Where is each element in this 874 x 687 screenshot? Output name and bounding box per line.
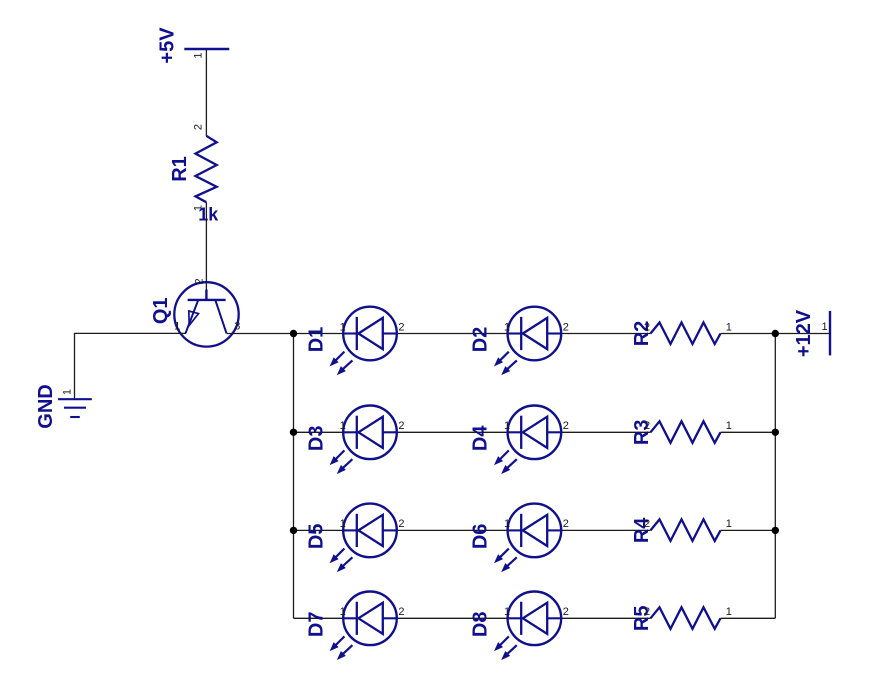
svg-text:2: 2: [398, 420, 404, 432]
svg-text:D4: D4: [470, 425, 492, 451]
LED D2: [508, 307, 562, 361]
svg-text:D3: D3: [306, 426, 328, 452]
power symbol +12V bar: [829, 311, 831, 356]
svg-text:1: 1: [726, 321, 732, 333]
right rail wire: [774, 334, 776, 619]
resistor R4: [651, 519, 721, 541]
svg-text:+5V: +5V: [157, 27, 179, 64]
wire row 2 segment d: [721, 431, 776, 433]
svg-text:1: 1: [504, 321, 510, 333]
wire row 2 segment c: [561, 431, 650, 433]
light arrows of D5: [331, 549, 353, 571]
resistor R5: [651, 607, 721, 629]
junction node D: [772, 330, 779, 337]
wire row 3 segment a: [294, 529, 344, 531]
svg-text:GND: GND: [35, 384, 57, 428]
LED D6: [508, 504, 562, 558]
LED D1: [343, 307, 397, 361]
svg-text:D5: D5: [306, 524, 328, 550]
svg-text:1k: 1k: [198, 205, 219, 225]
svg-text:1: 1: [726, 420, 732, 432]
LED D8: [508, 592, 562, 646]
svg-text:1: 1: [340, 420, 346, 432]
wire row 3 segment b: [397, 529, 508, 531]
wire Q1 emitter to GND corner: [75, 333, 187, 398]
power symbol +5V bar: [184, 48, 229, 50]
svg-text:3: 3: [234, 321, 240, 333]
wire row 4 segment d: [721, 617, 776, 619]
svg-text:1: 1: [726, 518, 732, 530]
svg-text:1: 1: [174, 321, 180, 333]
svg-text:2: 2: [563, 321, 569, 333]
svg-text:1: 1: [821, 321, 827, 333]
light arrows of D1: [331, 352, 353, 374]
svg-text:Q1: Q1: [150, 297, 172, 324]
wire R1 to Q1: [205, 202, 207, 290]
junction node B: [290, 429, 297, 436]
junction node C: [290, 527, 297, 534]
wire row 3 segment c: [561, 529, 650, 531]
svg-text:D7: D7: [306, 612, 328, 638]
svg-text:D6: D6: [470, 524, 492, 550]
svg-text:2: 2: [644, 518, 650, 530]
wire row 1 segment d: [721, 333, 831, 335]
svg-text:D1: D1: [306, 327, 328, 353]
svg-text:2: 2: [193, 278, 205, 284]
light arrows of D7: [331, 636, 353, 658]
LED D3: [343, 406, 397, 460]
light arrows of D3: [331, 450, 353, 472]
wire row 1 segment a: [227, 333, 344, 335]
svg-text:1: 1: [726, 606, 732, 618]
svg-text:1: 1: [193, 53, 205, 59]
wire row 4 segment b: [397, 617, 508, 619]
resistor R2: [651, 323, 721, 345]
svg-text:2: 2: [644, 420, 650, 432]
LED D7: [343, 592, 397, 646]
resistor R1: [196, 136, 217, 202]
svg-text:2: 2: [398, 606, 404, 618]
left rail wire: [293, 334, 295, 619]
wire row 2 segment a: [294, 431, 344, 433]
svg-text:D2: D2: [470, 327, 492, 353]
svg-text:1: 1: [62, 389, 74, 395]
svg-text:1: 1: [504, 518, 510, 530]
junction node A: [290, 330, 297, 337]
LED D4: [508, 406, 562, 460]
wire row 1 segment c: [561, 333, 650, 335]
svg-text:1: 1: [504, 606, 510, 618]
svg-text:1: 1: [340, 518, 346, 530]
svg-text:2: 2: [563, 518, 569, 530]
wire row 1 segment b: [397, 333, 508, 335]
resistor R3: [651, 421, 721, 443]
svg-text:2: 2: [644, 606, 650, 618]
wire row 4 segment c: [561, 617, 650, 619]
ground symbol GND: [58, 399, 92, 417]
wire row 2 segment b: [397, 431, 508, 433]
LED D5: [343, 504, 397, 558]
svg-text:1: 1: [504, 420, 510, 432]
junction node E: [772, 429, 779, 436]
light arrows of D6: [495, 549, 517, 571]
svg-text:1: 1: [340, 321, 346, 333]
junction node F: [772, 527, 779, 534]
svg-text:2: 2: [563, 420, 569, 432]
svg-text:+12V: +12V: [793, 309, 815, 357]
light arrows of D4: [495, 450, 517, 472]
svg-text:2: 2: [563, 606, 569, 618]
light arrows of D8: [495, 636, 517, 658]
light arrows of D2: [495, 352, 517, 374]
transistor Q1: [174, 282, 238, 346]
wire +5V to R1: [205, 50, 207, 136]
svg-text:2: 2: [192, 124, 204, 130]
svg-text:2: 2: [398, 518, 404, 530]
svg-text:R1: R1: [169, 156, 191, 182]
svg-text:2: 2: [398, 321, 404, 333]
svg-text:2: 2: [644, 321, 650, 333]
wire row 4 segment a: [294, 617, 344, 619]
svg-text:D8: D8: [470, 612, 492, 638]
svg-text:1: 1: [340, 606, 346, 618]
wire row 3 segment d: [721, 529, 776, 531]
